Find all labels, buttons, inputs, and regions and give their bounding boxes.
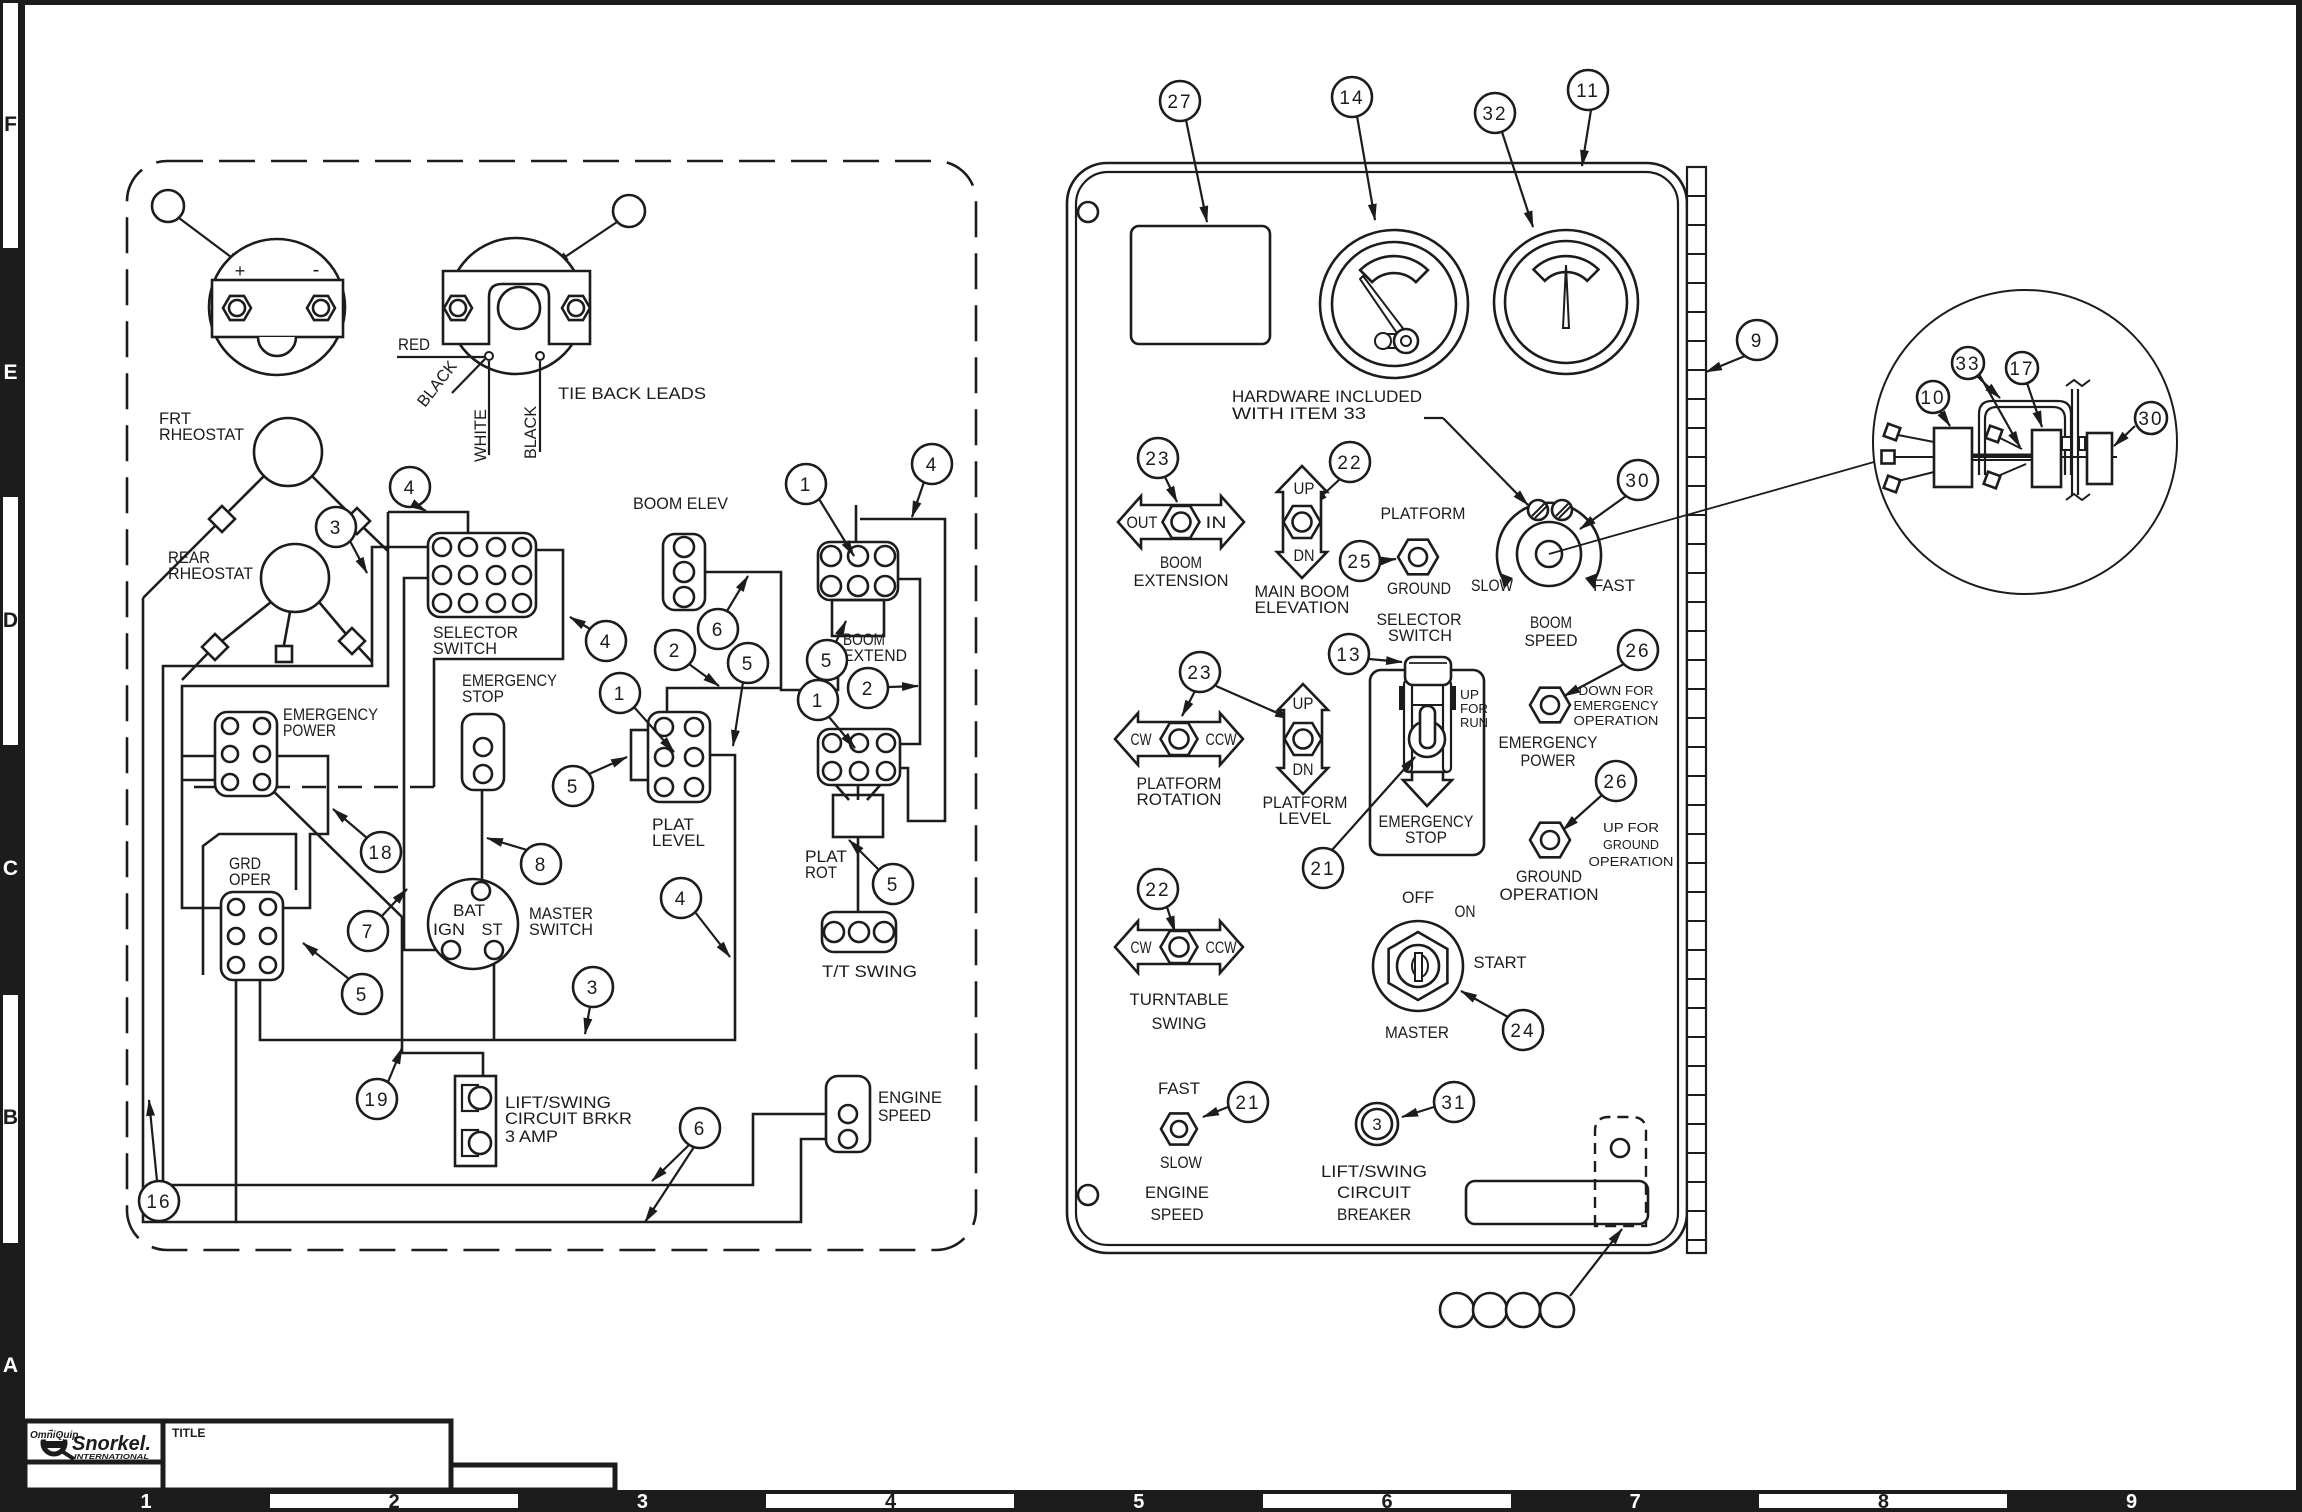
connector plat level bbox=[648, 712, 710, 802]
wire emerg stop to master bbox=[481, 790, 484, 882]
svg-text:31: 31 bbox=[1441, 1093, 1466, 1114]
turntable swing arrow bbox=[1115, 921, 1243, 973]
REAR lead left bbox=[222, 602, 271, 641]
bottom zone white box bbox=[1759, 1494, 2007, 1508]
detail U clamp 33 bbox=[1979, 401, 2071, 475]
svg-text:9: 9 bbox=[2126, 1491, 2137, 1512]
boom speed rotate arrow bbox=[1497, 503, 1601, 584]
svg-text:ENGINE: ENGINE bbox=[1145, 1184, 1209, 1202]
svg-text:5: 5 bbox=[821, 651, 834, 672]
svg-text:4: 4 bbox=[404, 478, 417, 499]
callout 32 bbox=[1475, 93, 1515, 133]
detail tab left bbox=[2062, 437, 2071, 450]
svg-text:RHEOSTAT: RHEOSTAT bbox=[159, 426, 244, 444]
svg-text:23: 23 bbox=[1187, 663, 1212, 684]
svg-text:9: 9 bbox=[1751, 331, 1764, 352]
chain circle 1 bbox=[1440, 1293, 1474, 1327]
toggle rail left bbox=[1404, 680, 1412, 772]
svg-text:A: A bbox=[3, 1354, 18, 1377]
connector grd oper bbox=[221, 892, 283, 980]
svg-text:OUT: OUT bbox=[1127, 514, 1158, 532]
svg-text:START: START bbox=[1474, 954, 1527, 972]
svg-text:CCW: CCW bbox=[1206, 731, 1237, 749]
svg-text:SLOW: SLOW bbox=[1160, 1154, 1202, 1172]
platform ground hex bbox=[1398, 540, 1438, 575]
svg-text:4: 4 bbox=[926, 455, 939, 476]
detail callout 33 bbox=[1952, 347, 1984, 379]
connector tt swing bbox=[822, 912, 896, 952]
svg-text:BLACK: BLACK bbox=[522, 406, 540, 459]
engine speed hex bbox=[1161, 1113, 1197, 1144]
master IGN terminal bbox=[442, 941, 460, 959]
svg-text:1: 1 bbox=[614, 684, 627, 705]
platform level arrow bbox=[1278, 684, 1328, 794]
detail block 30 bbox=[2087, 433, 2112, 484]
svg-text:13: 13 bbox=[1336, 645, 1361, 666]
callout 4 top bbox=[390, 467, 430, 507]
balloon circle right bbox=[613, 195, 645, 227]
wire plat level mid bbox=[651, 754, 706, 757]
svg-text:C: C bbox=[3, 857, 18, 880]
detail callout 10 bbox=[1917, 381, 1949, 413]
title block logo box bbox=[25, 1421, 163, 1462]
latch dashed outline bbox=[1595, 1117, 1646, 1226]
svg-text:6: 6 bbox=[712, 620, 725, 641]
callout 4 boom extend bbox=[912, 444, 952, 484]
breaker terminal 1 bbox=[462, 1085, 478, 1111]
svg-text:SWING: SWING bbox=[1152, 1015, 1207, 1033]
svg-text:SWITCH: SWITCH bbox=[433, 640, 497, 658]
callout 13 bbox=[1329, 634, 1369, 674]
svg-text:LEVEL: LEVEL bbox=[1279, 810, 1332, 828]
svg-text:33: 33 bbox=[1955, 354, 1980, 375]
chain circle 4 bbox=[1540, 1293, 1574, 1327]
svg-text:CIRCUIT BRKR: CIRCUIT BRKR bbox=[505, 1110, 632, 1128]
svg-text:EMERGENCY: EMERGENCY bbox=[1499, 734, 1598, 752]
callout 1 plat level bbox=[600, 673, 640, 713]
callout 25 bbox=[1340, 541, 1380, 581]
emergency stop down arrow bbox=[1403, 772, 1452, 806]
svg-text:CW: CW bbox=[1131, 939, 1152, 957]
detail mid square 1 bbox=[1986, 426, 2003, 443]
wire plat level top bbox=[667, 688, 781, 714]
wire selector row1 left bbox=[163, 547, 833, 1185]
meter R terminal plate bbox=[443, 271, 590, 344]
callout 24 bbox=[1503, 1010, 1543, 1050]
meter L notch bbox=[258, 337, 296, 356]
wire grd oper box bbox=[203, 834, 296, 975]
meter L terminal plate bbox=[212, 280, 343, 337]
mounting hole top-left bbox=[1078, 202, 1098, 222]
svg-text:27: 27 bbox=[1167, 92, 1192, 113]
meter R nut 2 bbox=[562, 296, 590, 320]
svg-text:DOWN FOR: DOWN FOR bbox=[1579, 683, 1654, 698]
connector engine speed bbox=[826, 1076, 870, 1152]
callout 31 bbox=[1434, 1082, 1474, 1122]
svg-text:CW: CW bbox=[1131, 731, 1152, 749]
gauge 1 scale band bbox=[1360, 256, 1428, 282]
REAR lead diamond left bbox=[202, 634, 228, 660]
meter L nut 2 bbox=[307, 296, 335, 320]
gauge 1 needle bbox=[1360, 276, 1408, 339]
gauge 1 link bbox=[1376, 334, 1406, 348]
svg-text:DN: DN bbox=[1294, 547, 1315, 565]
callout 5 plat level bbox=[553, 766, 593, 806]
gauge 2 inner bbox=[1505, 241, 1627, 363]
svg-text:18: 18 bbox=[368, 843, 393, 864]
svg-text:RUN: RUN bbox=[1460, 715, 1488, 730]
callout 6 boom elev bbox=[698, 609, 738, 649]
callout 5 grd bbox=[342, 974, 382, 1014]
svg-text:OPERATION: OPERATION bbox=[1589, 854, 1674, 869]
svg-text:5: 5 bbox=[356, 985, 369, 1006]
ground operation hex bbox=[1530, 823, 1570, 858]
FRT rheostat lead right bbox=[312, 476, 350, 514]
wire left loop A bbox=[182, 512, 388, 908]
connector selector switch bbox=[428, 533, 536, 617]
svg-text:2: 2 bbox=[389, 1491, 400, 1512]
callout 16 bbox=[139, 1181, 179, 1221]
bottom zone bar bbox=[0, 1490, 2302, 1512]
svg-text:5: 5 bbox=[887, 875, 900, 896]
svg-text:BAT: BAT bbox=[453, 902, 485, 920]
svg-text:-: - bbox=[313, 259, 320, 281]
platform rotation arrow bbox=[1115, 713, 1243, 765]
svg-text:+: + bbox=[235, 261, 246, 281]
svg-text:TIE BACK LEADS: TIE BACK LEADS bbox=[558, 385, 706, 403]
BLACK diagonal wire bbox=[452, 359, 485, 393]
REAR lead diamond right bbox=[339, 628, 365, 654]
svg-text:ENGINE: ENGINE bbox=[878, 1089, 942, 1107]
wire selector right loop bbox=[434, 550, 563, 787]
svg-text:OPERATION: OPERATION bbox=[1500, 886, 1599, 904]
circuit breaker rear body bbox=[455, 1076, 496, 1166]
harness panel dashed outline bbox=[127, 161, 976, 1250]
svg-text:6: 6 bbox=[1381, 1491, 1392, 1512]
callout 26 emerg bbox=[1618, 630, 1658, 670]
svg-text:OPERATION: OPERATION bbox=[1574, 713, 1659, 728]
svg-text:8: 8 bbox=[1878, 1491, 1889, 1512]
svg-text:5: 5 bbox=[567, 777, 580, 798]
wire V1 left bbox=[143, 598, 236, 1222]
zone box B bbox=[3, 995, 18, 1243]
callout 2 boom extend bbox=[848, 668, 888, 708]
svg-text:5: 5 bbox=[742, 654, 755, 675]
svg-text:11: 11 bbox=[1576, 81, 1600, 102]
svg-text:ELEVATION: ELEVATION bbox=[1255, 599, 1350, 617]
detail view circle bbox=[1873, 290, 2177, 594]
plat level tab bbox=[631, 730, 651, 780]
connector emergency stop rear bbox=[462, 714, 504, 790]
page top border bbox=[0, 0, 2302, 5]
callout 27 bbox=[1160, 81, 1200, 121]
turntable swing hex bbox=[1161, 931, 1198, 963]
svg-text:2: 2 bbox=[669, 641, 682, 662]
svg-text:DN: DN bbox=[1293, 761, 1314, 779]
main boom elevation arrow bbox=[1277, 466, 1327, 578]
svg-text:26: 26 bbox=[1603, 772, 1628, 793]
svg-text:UP: UP bbox=[1460, 687, 1479, 702]
wire boom extend right bbox=[893, 579, 920, 744]
FRT lead diamond right bbox=[344, 508, 370, 534]
bottom zone white box bbox=[1263, 1494, 1511, 1508]
callout 9 bbox=[1737, 320, 1777, 360]
callout 4 mid bbox=[661, 878, 701, 918]
FRT lead continues bbox=[143, 526, 215, 598]
svg-text:22: 22 bbox=[1337, 453, 1362, 474]
platform rotation hex bbox=[1161, 723, 1198, 755]
callout 18 bbox=[361, 832, 401, 872]
svg-text:LEVEL: LEVEL bbox=[652, 832, 705, 850]
wire master ST down bbox=[493, 958, 496, 1040]
svg-text:OPER: OPER bbox=[229, 871, 271, 889]
hour meter window bbox=[1131, 226, 1270, 344]
callout 14 bbox=[1332, 77, 1372, 117]
gauge 1 hub bbox=[1394, 329, 1418, 353]
svg-text:BOOM: BOOM bbox=[1530, 614, 1572, 632]
callout 2 plat top bbox=[655, 630, 695, 670]
callout 1 plat rot bbox=[798, 680, 838, 720]
svg-text:7: 7 bbox=[1630, 1491, 1641, 1512]
svg-text:21: 21 bbox=[1235, 1093, 1260, 1114]
detail tab right bbox=[2079, 437, 2085, 450]
svg-text:TITLE: TITLE bbox=[172, 1426, 205, 1440]
svg-text:RED: RED bbox=[398, 336, 430, 354]
svg-text:32: 32 bbox=[1482, 104, 1507, 125]
FRT lead continues right bbox=[364, 528, 388, 551]
gauge 1 outer bbox=[1320, 230, 1468, 378]
svg-text:E: E bbox=[3, 361, 17, 384]
svg-text:FAST: FAST bbox=[1593, 577, 1635, 595]
svg-text:17: 17 bbox=[2009, 359, 2034, 380]
callout 1 boom extend bbox=[786, 464, 826, 504]
svg-text:UP: UP bbox=[1294, 480, 1315, 498]
svg-text:EXTEND: EXTEND bbox=[843, 647, 907, 665]
title block right lower box bbox=[451, 1465, 615, 1490]
master ST terminal bbox=[485, 941, 503, 959]
svg-text:30: 30 bbox=[2138, 409, 2163, 430]
FRT rheostat lead left bbox=[229, 476, 264, 511]
svg-text:INTERNATIONAL: INTERNATIONAL bbox=[74, 1452, 149, 1461]
svg-text:3: 3 bbox=[637, 1491, 648, 1512]
svg-text:3: 3 bbox=[1372, 1115, 1381, 1134]
detail block 10 bbox=[1934, 428, 1972, 487]
white lead wire bbox=[488, 361, 490, 455]
boom speed screw 1 bbox=[1528, 500, 1548, 520]
svg-text:GROUND: GROUND bbox=[1603, 837, 1659, 852]
svg-text:5: 5 bbox=[1133, 1491, 1144, 1512]
svg-text:14: 14 bbox=[1339, 88, 1364, 109]
svg-text:HARDWARE INCLUDED: HARDWARE INCLUDED bbox=[1232, 388, 1422, 406]
breaker terminal 2 bbox=[462, 1130, 478, 1156]
callout 4 selector bbox=[586, 621, 626, 661]
meter L body bbox=[209, 239, 345, 375]
detail callout 17 bbox=[2006, 352, 2038, 384]
svg-text:POWER: POWER bbox=[1521, 752, 1576, 770]
wire emerg power diag bbox=[264, 782, 483, 1086]
svg-text:6: 6 bbox=[694, 1119, 707, 1140]
svg-text:FAST: FAST bbox=[1158, 1080, 1200, 1098]
svg-text:SWITCH: SWITCH bbox=[1388, 627, 1452, 645]
svg-text:19: 19 bbox=[364, 1090, 389, 1111]
wire boom extend loop bbox=[860, 519, 945, 821]
wire emerg power right bbox=[256, 756, 328, 908]
svg-text:1: 1 bbox=[812, 691, 825, 712]
wire tt swing up bbox=[857, 838, 860, 920]
connector boom elev bbox=[663, 534, 705, 610]
boom extend tab bbox=[832, 600, 884, 636]
bottom zone white box bbox=[270, 1494, 518, 1508]
chain circle 2 bbox=[1473, 1293, 1507, 1327]
balloon circle left bbox=[152, 190, 184, 222]
svg-text:SPEED: SPEED bbox=[878, 1107, 931, 1125]
wire emerg power bot-left bbox=[182, 779, 222, 782]
svg-text:D: D bbox=[3, 609, 18, 632]
svg-text:B: B bbox=[3, 1106, 18, 1129]
callout 8 bbox=[521, 844, 561, 884]
svg-text:FOR: FOR bbox=[1460, 701, 1488, 716]
leader to meter L bbox=[179, 218, 243, 266]
svg-text:7: 7 bbox=[362, 922, 375, 943]
gauge 1 inner bbox=[1332, 242, 1456, 366]
svg-text:10: 10 bbox=[1920, 388, 1945, 409]
svg-text:1: 1 bbox=[140, 1491, 151, 1512]
svg-text:ST: ST bbox=[482, 921, 503, 939]
svg-text:BOOM: BOOM bbox=[1160, 554, 1202, 572]
wire grd bottom left bbox=[236, 977, 833, 1222]
callout 21 estop bbox=[1303, 848, 1343, 888]
black lead wire bbox=[539, 361, 541, 452]
svg-text:SPEED: SPEED bbox=[1525, 632, 1578, 650]
wire plat rot fan 1 bbox=[833, 782, 849, 800]
plat rot tab bbox=[833, 795, 883, 837]
wire selector top feed bbox=[388, 512, 468, 533]
gauge 2 outer bbox=[1494, 230, 1638, 374]
callout 30 knob bbox=[1618, 460, 1658, 500]
svg-text:ROT: ROT bbox=[805, 864, 837, 882]
leader to meter R bbox=[553, 222, 617, 265]
svg-text:T/T SWING: T/T SWING bbox=[822, 963, 917, 981]
svg-text:2: 2 bbox=[862, 679, 875, 700]
detail shaft line bbox=[1895, 456, 2117, 458]
wire selector row2 left bbox=[404, 578, 443, 950]
svg-text:LIFT/SWING: LIFT/SWING bbox=[1321, 1163, 1427, 1181]
detail panel plate bbox=[2071, 389, 2073, 495]
svg-text:21: 21 bbox=[1310, 859, 1335, 880]
svg-text:UP: UP bbox=[1293, 695, 1314, 713]
master switch body bbox=[428, 879, 518, 969]
svg-text:3: 3 bbox=[587, 978, 600, 999]
svg-text:PLATFORM: PLATFORM bbox=[1381, 505, 1466, 523]
boom extension hex bbox=[1163, 506, 1200, 538]
svg-text:IGN: IGN bbox=[433, 921, 465, 939]
meter R lead dot 2 bbox=[536, 352, 544, 360]
meter L nut 1 bbox=[223, 296, 251, 320]
svg-text:BREAKER: BREAKER bbox=[1337, 1206, 1411, 1224]
svg-text:IN: IN bbox=[1206, 514, 1227, 532]
callout 3 rheostat bbox=[316, 507, 356, 547]
callout 5 plat rot bbox=[873, 864, 913, 904]
callout 26 ground bbox=[1596, 761, 1636, 801]
gauge 2 needle bbox=[1563, 265, 1569, 328]
page right border bbox=[2296, 0, 2302, 1512]
hardware leader bbox=[1424, 417, 1443, 419]
meter R lead dot 1 bbox=[485, 352, 493, 360]
detail shaft thick bbox=[1972, 454, 2032, 457]
mounting hole bottom-left bbox=[1078, 1185, 1098, 1205]
FRT lead diamond left bbox=[209, 506, 235, 532]
callout 6 bottom bbox=[680, 1108, 720, 1148]
toggle ball bbox=[1409, 721, 1445, 757]
toggle side tab right bbox=[1450, 686, 1456, 710]
boom extension arrow bbox=[1118, 496, 1244, 548]
callout 19 bbox=[357, 1079, 397, 1119]
svg-text:24: 24 bbox=[1510, 1021, 1535, 1042]
svg-text:4: 4 bbox=[675, 889, 688, 910]
callout 5 plat top bbox=[728, 643, 768, 683]
emergency power hex bbox=[1530, 688, 1570, 723]
svg-text:3 AMP: 3 AMP bbox=[505, 1128, 558, 1146]
svg-text:STOP: STOP bbox=[1405, 829, 1447, 847]
leader to detail view bbox=[1549, 462, 1874, 554]
breaker front bbox=[1356, 1103, 1398, 1145]
REAR lead continues bbox=[182, 653, 208, 680]
REAR rheostat body bbox=[261, 544, 329, 612]
left zone bar bbox=[0, 0, 25, 1512]
wire grd bottom right bbox=[260, 755, 735, 1040]
svg-text:8: 8 bbox=[535, 855, 548, 876]
svg-text:16: 16 bbox=[146, 1192, 171, 1213]
svg-text:ON: ON bbox=[1455, 903, 1476, 921]
connector plat rot bbox=[818, 729, 900, 785]
callout 21 engine bbox=[1228, 1082, 1268, 1122]
chain leader bbox=[1570, 1229, 1622, 1296]
toggle rail right bbox=[1443, 680, 1451, 772]
latch hole bbox=[1611, 1139, 1629, 1157]
detail terminal square 1 bbox=[1884, 424, 1901, 441]
hinge strip bbox=[1687, 167, 1706, 1253]
title block TITLE box bbox=[163, 1421, 451, 1490]
REAR lead square bbox=[276, 646, 292, 662]
connector boom extend bbox=[818, 542, 898, 600]
wire emerg power mid-left bbox=[182, 755, 222, 758]
callout 3 bottom bbox=[573, 967, 613, 1007]
svg-text:22: 22 bbox=[1145, 880, 1170, 901]
svg-text:MASTER: MASTER bbox=[1385, 1024, 1449, 1042]
svg-text:ROTATION: ROTATION bbox=[1137, 791, 1222, 809]
svg-text:F: F bbox=[4, 113, 17, 136]
toggle lever bbox=[1420, 706, 1435, 748]
panel face outer bbox=[1067, 163, 1687, 1253]
bottom zone white box bbox=[766, 1494, 1014, 1508]
svg-text:4: 4 bbox=[885, 1491, 897, 1512]
detail block 17 bbox=[2032, 430, 2061, 487]
title block box under logo bbox=[25, 1462, 163, 1490]
wire boom extend top bbox=[855, 505, 858, 585]
main boom hex bbox=[1284, 506, 1321, 538]
svg-text:CCW: CCW bbox=[1206, 939, 1237, 957]
hinge knuckle ticks bbox=[1687, 195, 1706, 197]
toggle cap bbox=[1405, 657, 1451, 685]
meter R body bbox=[448, 238, 584, 374]
svg-text:SPEED: SPEED bbox=[1151, 1206, 1204, 1224]
master key switch bbox=[1373, 921, 1463, 1011]
svg-text:4: 4 bbox=[600, 632, 613, 653]
callout 5 boom extend bbox=[807, 640, 847, 680]
toggle window line bbox=[1412, 704, 1443, 706]
detail terminal square 2 bbox=[1882, 451, 1895, 464]
REAR lead center bbox=[284, 612, 290, 645]
